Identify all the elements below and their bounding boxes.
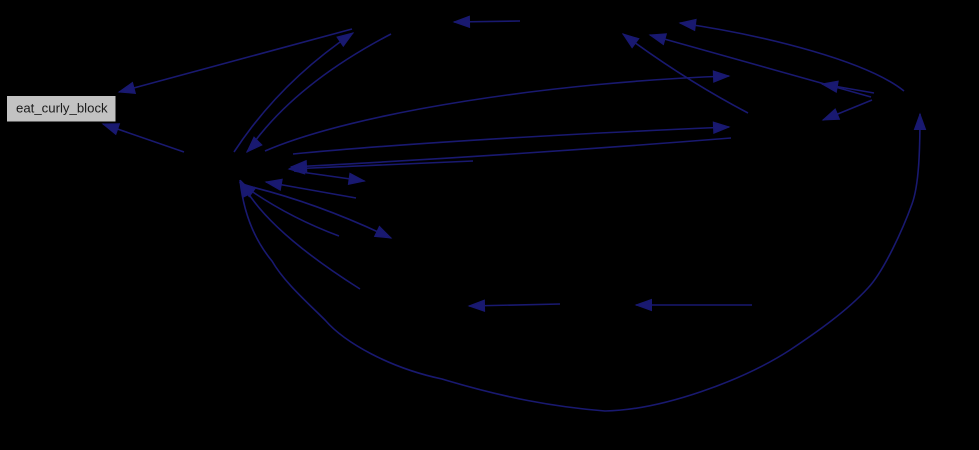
wire edge R2 to H: [291, 138, 731, 167]
wire edge H to eat_curly_block: [103, 124, 184, 152]
wire edge H to T1: [234, 33, 353, 152]
wire edge N5 to H: [241, 181, 360, 289]
wire edge N4 to H: [289, 161, 473, 169]
wire edge N3 to H: [240, 183, 339, 236]
wire edge T1 to H: [247, 34, 391, 152]
wire edge R2 to T2: [623, 34, 748, 113]
wire edge H to N2: [294, 171, 365, 181]
wire edge H to FR big sweep: [240, 114, 920, 411]
wire edge H to R1: [265, 76, 729, 151]
wire edge FR to R2: [823, 100, 872, 120]
svg-text:eat_curly_block: eat_curly_block: [16, 101, 108, 116]
wire edge N7 to N6: [636, 304, 752, 306]
wire edge N2 to H: [266, 182, 356, 198]
wire edge T1 to eat_curly_block: [119, 29, 352, 92]
wire edge FR to T2 top curve: [680, 23, 904, 91]
wire edge H to N3: [252, 187, 391, 238]
node eat_curly_block: [7, 96, 117, 123]
wire edge H to R2: [293, 127, 729, 154]
wire edge FR to R1: [822, 84, 874, 93]
wire edge T2 to T1: [454, 21, 520, 22]
wire edge N6 to N5: [469, 304, 560, 306]
wire edge FR to T2 second: [650, 35, 871, 97]
